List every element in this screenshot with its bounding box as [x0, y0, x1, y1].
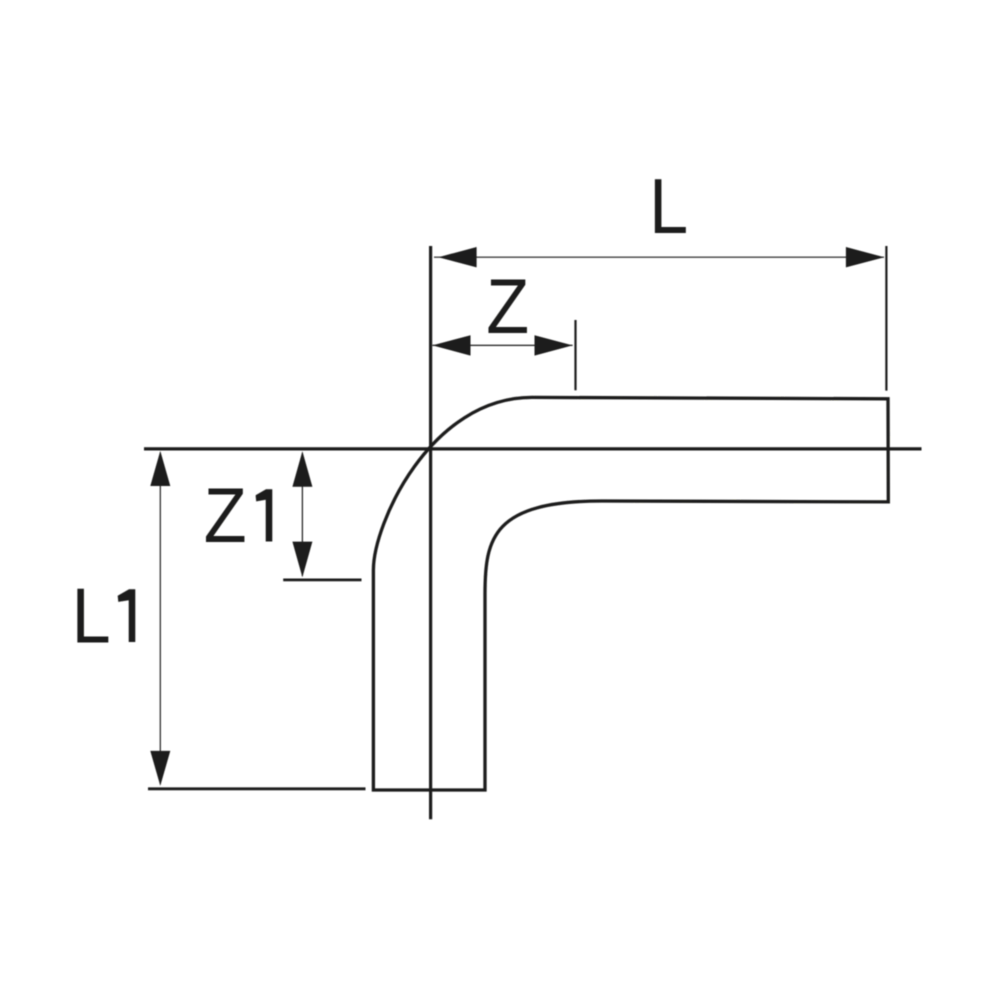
svg-text:Z: Z — [204, 472, 247, 559]
dimension Z1: line — [301, 453, 303, 576]
dimension Z1: up arrowhead — [292, 451, 312, 487]
horizontal centerline — [144, 447, 922, 450]
dimension L1: line — [159, 453, 161, 784]
dimension Z1: reference line — [283, 579, 361, 582]
dimension Z: right arrowhead — [535, 335, 573, 355]
dimension Z1: down arrowhead — [292, 542, 312, 578]
pipe elbow outline — [373, 397, 888, 790]
vertical centerline — [429, 246, 432, 819]
svg-text:Z: Z — [486, 263, 529, 350]
dimension L: right extension line — [885, 246, 887, 391]
svg-text:L: L — [649, 163, 688, 250]
dimension Z: line — [432, 344, 572, 346]
dimension Z: extension tick — [574, 320, 576, 390]
dimension L1: bottom reference line — [148, 787, 366, 790]
dimension L1: down arrowhead — [150, 751, 170, 786]
svg-text:L: L — [72, 572, 111, 659]
dimension L1: up arrowhead — [150, 451, 170, 486]
dimension Z: left arrowhead — [432, 335, 470, 355]
dimension L: left arrowhead — [438, 247, 476, 267]
dimension L: right arrowhead — [846, 247, 884, 267]
dimension L: line — [434, 256, 884, 258]
